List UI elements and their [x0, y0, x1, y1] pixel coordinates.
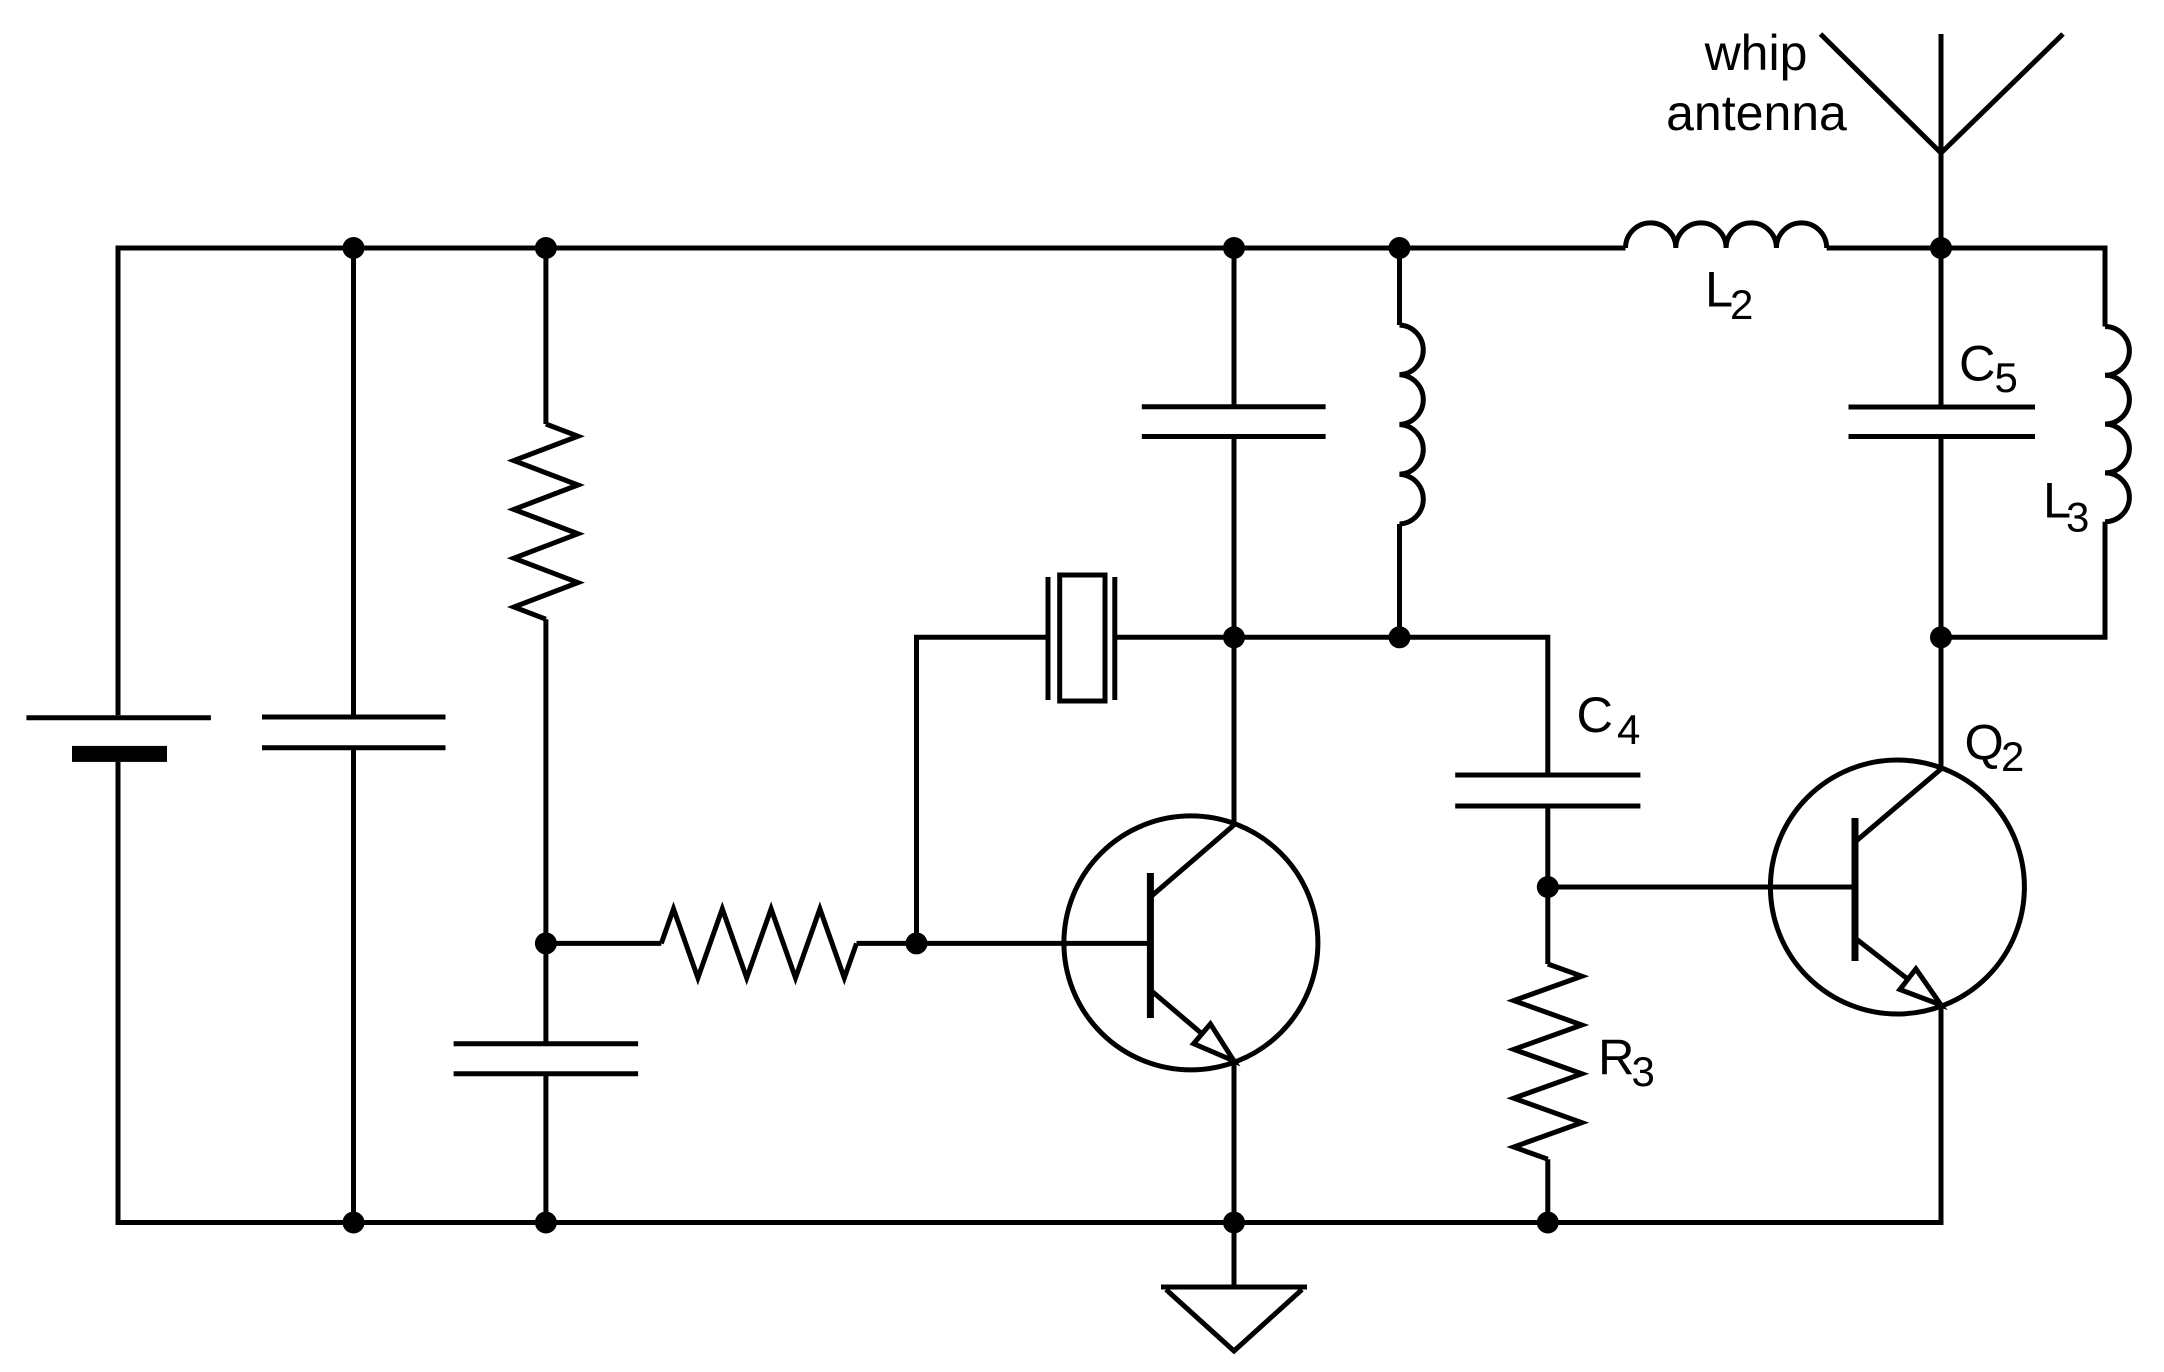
svg-text:3: 3 — [1632, 1048, 1655, 1095]
svg-text:C: C — [1577, 686, 1613, 743]
svg-text:L: L — [1705, 261, 1733, 318]
svg-text:C: C — [1959, 335, 1995, 392]
svg-text:whip: whip — [1704, 25, 1808, 81]
svg-text:5: 5 — [1995, 354, 2018, 401]
svg-text:2: 2 — [1730, 281, 1753, 328]
svg-text:Q: Q — [1965, 714, 2004, 771]
svg-text:2: 2 — [2001, 733, 2024, 780]
svg-text:4: 4 — [1617, 706, 1640, 753]
svg-text:antenna: antenna — [1666, 85, 1847, 141]
svg-text:R: R — [1598, 1029, 1634, 1086]
svg-text:3: 3 — [2066, 494, 2089, 541]
